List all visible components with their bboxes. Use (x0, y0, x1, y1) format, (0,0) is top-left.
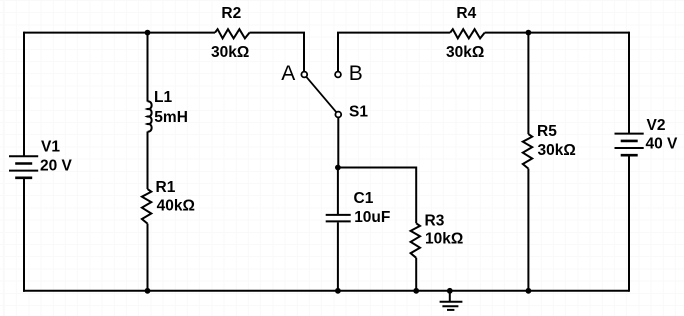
svg-text:10uF: 10uF (354, 209, 390, 226)
battery V2 plate short bottom (621, 154, 638, 157)
wire switch pole to junction (337, 117, 339, 167)
wire C1 to bottom rail (337, 222, 339, 290)
node junction dot bottom of R5 branch (526, 288, 532, 294)
battery V1 plate short bottom (15, 177, 32, 180)
node junction dot switch/C1/R3 (335, 165, 341, 171)
resistor R1 (142, 189, 151, 224)
node junction dot bottom of C1 (335, 288, 341, 294)
wire left rail upper (to V1 plus plate) (23, 32, 25, 157)
svg-text:5mH: 5mH (154, 109, 188, 126)
svg-text:R4: R4 (456, 5, 476, 22)
battery V2 plate long top (615, 133, 644, 135)
svg-text:V1: V1 (41, 139, 60, 156)
wire R5 branch upper (527, 33, 529, 135)
wire top rail left (V1 top to R2) (24, 32, 215, 34)
svg-text:S1: S1 (349, 103, 368, 120)
switch terminal B circle (335, 72, 341, 78)
node junction dot top of L1 branch (145, 30, 151, 36)
switch S1 pole circle (335, 112, 341, 118)
battery V1 plate long top (9, 155, 38, 157)
node junction dot top of R5 branch (526, 30, 532, 36)
svg-text:R2: R2 (221, 5, 241, 22)
svg-text:L1: L1 (154, 89, 172, 106)
svg-text:R3: R3 (425, 213, 445, 230)
wire junction to R3 branch horizontal (338, 168, 416, 224)
resistor R2 (215, 29, 250, 38)
switch terminal A circle (301, 72, 307, 78)
battery V1 plate short (15, 162, 32, 165)
svg-text:B: B (349, 62, 363, 85)
inductor L1 coil (148, 101, 152, 131)
resistor R3 (411, 223, 420, 257)
wire left rail lower (V1 minus to bottom rail) (23, 178, 25, 292)
wire bottom rail (23, 290, 629, 292)
wire C1 branch upper (337, 168, 339, 215)
battery V1 plate long (9, 170, 38, 172)
svg-text:30kΩ: 30kΩ (211, 44, 249, 61)
wire right rail lower (V2 minus to bottom rail) (628, 155, 630, 292)
wire R4 to top right corner (485, 32, 629, 34)
svg-text:A: A (281, 62, 295, 85)
svg-text:R5: R5 (537, 123, 557, 140)
wire R3 to bottom rail (415, 258, 417, 291)
node junction dot ground tap (447, 288, 453, 294)
wire L1 branch upper (147, 33, 149, 102)
wire L1 to R1 (147, 132, 149, 190)
capacitor C1 top plate (326, 214, 351, 216)
wire R5 to bottom rail (527, 169, 529, 291)
switch S1 blade (pole to A) (306, 77, 336, 112)
resistor R5 (523, 134, 532, 169)
svg-text:C1: C1 (354, 190, 374, 207)
battery V2 plate long (615, 147, 644, 149)
wire R2 to switch terminal A drop (250, 33, 305, 72)
wire R1 to bottom rail (147, 224, 149, 291)
ground symbol (440, 291, 463, 310)
svg-text:20 V: 20 V (40, 158, 73, 175)
resistor R4 (450, 29, 485, 38)
svg-text:40kΩ: 40kΩ (157, 198, 195, 215)
wire B terminal riser (338, 33, 450, 72)
capacitor C1 bottom plate (326, 220, 351, 222)
svg-text:10kΩ: 10kΩ (425, 231, 463, 248)
svg-text:30kΩ: 30kΩ (446, 44, 484, 61)
wire right rail upper (to V2 plus plate) (628, 32, 630, 134)
svg-text:R1: R1 (156, 179, 176, 196)
svg-text:40 V: 40 V (646, 136, 679, 153)
battery V2 plate short (621, 140, 638, 143)
svg-text:V2: V2 (647, 117, 666, 134)
node junction dot bottom of R3 (413, 288, 419, 294)
svg-text:30kΩ: 30kΩ (538, 142, 576, 159)
node junction dot bottom of R1 branch (145, 288, 151, 294)
